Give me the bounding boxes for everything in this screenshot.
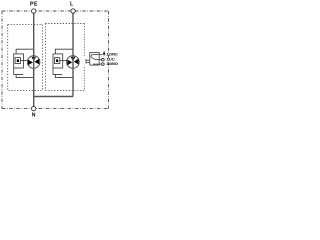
module 2 bottom outline B <box>55 74 73 77</box>
module 2 disconnector core <box>56 59 58 62</box>
linkage fork bar <box>85 59 87 64</box>
module 2 disconnector housing <box>53 54 63 68</box>
terminal N <box>32 106 36 110</box>
dashed enclosure box B left <box>44 24 46 91</box>
module 2 link wire square to arrester <box>60 60 68 62</box>
module 1 disconnector core <box>17 59 19 62</box>
linkage fork prong upper <box>86 59 90 61</box>
svg-text:N: N <box>32 112 36 118</box>
module 1 link wire square to arrester <box>21 60 29 62</box>
dashed enclosure box B right upper <box>83 24 85 57</box>
boundary dash-dot left <box>1 11 3 109</box>
module 2 arrester circle <box>67 56 80 69</box>
module 1 arrester triangle left <box>28 60 33 66</box>
dashed enclosure box B bottom <box>45 89 84 91</box>
module 2 arrester triangle left <box>67 60 72 66</box>
dashed enclosure box B right lower <box>83 67 85 90</box>
module 2 arrester triangle right <box>74 59 79 65</box>
module 1 arrester circle <box>27 56 40 69</box>
module 2 top outline <box>55 49 73 54</box>
boundary dash-dot right <box>108 11 110 109</box>
linkage fork prong lower <box>86 61 90 63</box>
module 1 bottom outline A <box>14 68 23 74</box>
terminal 12 <box>103 51 106 56</box>
module 2 bottom outline A <box>53 68 62 74</box>
wire bottom bus <box>34 97 73 107</box>
module 1 disconnector housing <box>14 54 24 68</box>
terminal 11 <box>102 58 105 61</box>
module 1 top outline <box>16 49 34 54</box>
dashed enclosure box A <box>8 24 43 90</box>
module 2 arrester triangle top <box>71 57 76 61</box>
wire PE drop <box>33 13 35 96</box>
wire L drop <box>72 13 74 96</box>
module 2 disconnector square <box>54 58 59 64</box>
switch box <box>90 52 99 65</box>
switch C lead <box>95 59 103 61</box>
module 1 disconnector square <box>15 58 20 64</box>
svg-text:PE: PE <box>30 2 38 8</box>
switch NO lead <box>93 63 103 65</box>
boundary dash-dot top <box>2 10 109 12</box>
dashed enclosure box B top <box>45 23 84 25</box>
svg-text:14/NO: 14/NO <box>106 61 118 66</box>
module 1 bottom outline B <box>16 74 34 77</box>
svg-text:L: L <box>70 2 73 8</box>
terminal 14 <box>102 63 105 66</box>
module 1 arrester triangle right <box>35 59 40 65</box>
module 1 arrester triangle top <box>31 57 36 61</box>
terminal L <box>71 9 75 13</box>
terminal PE <box>32 9 36 13</box>
boundary dash-dot bottom <box>2 108 109 110</box>
switch arm diagonal <box>91 57 95 60</box>
switch NC lead with hook <box>91 55 103 58</box>
